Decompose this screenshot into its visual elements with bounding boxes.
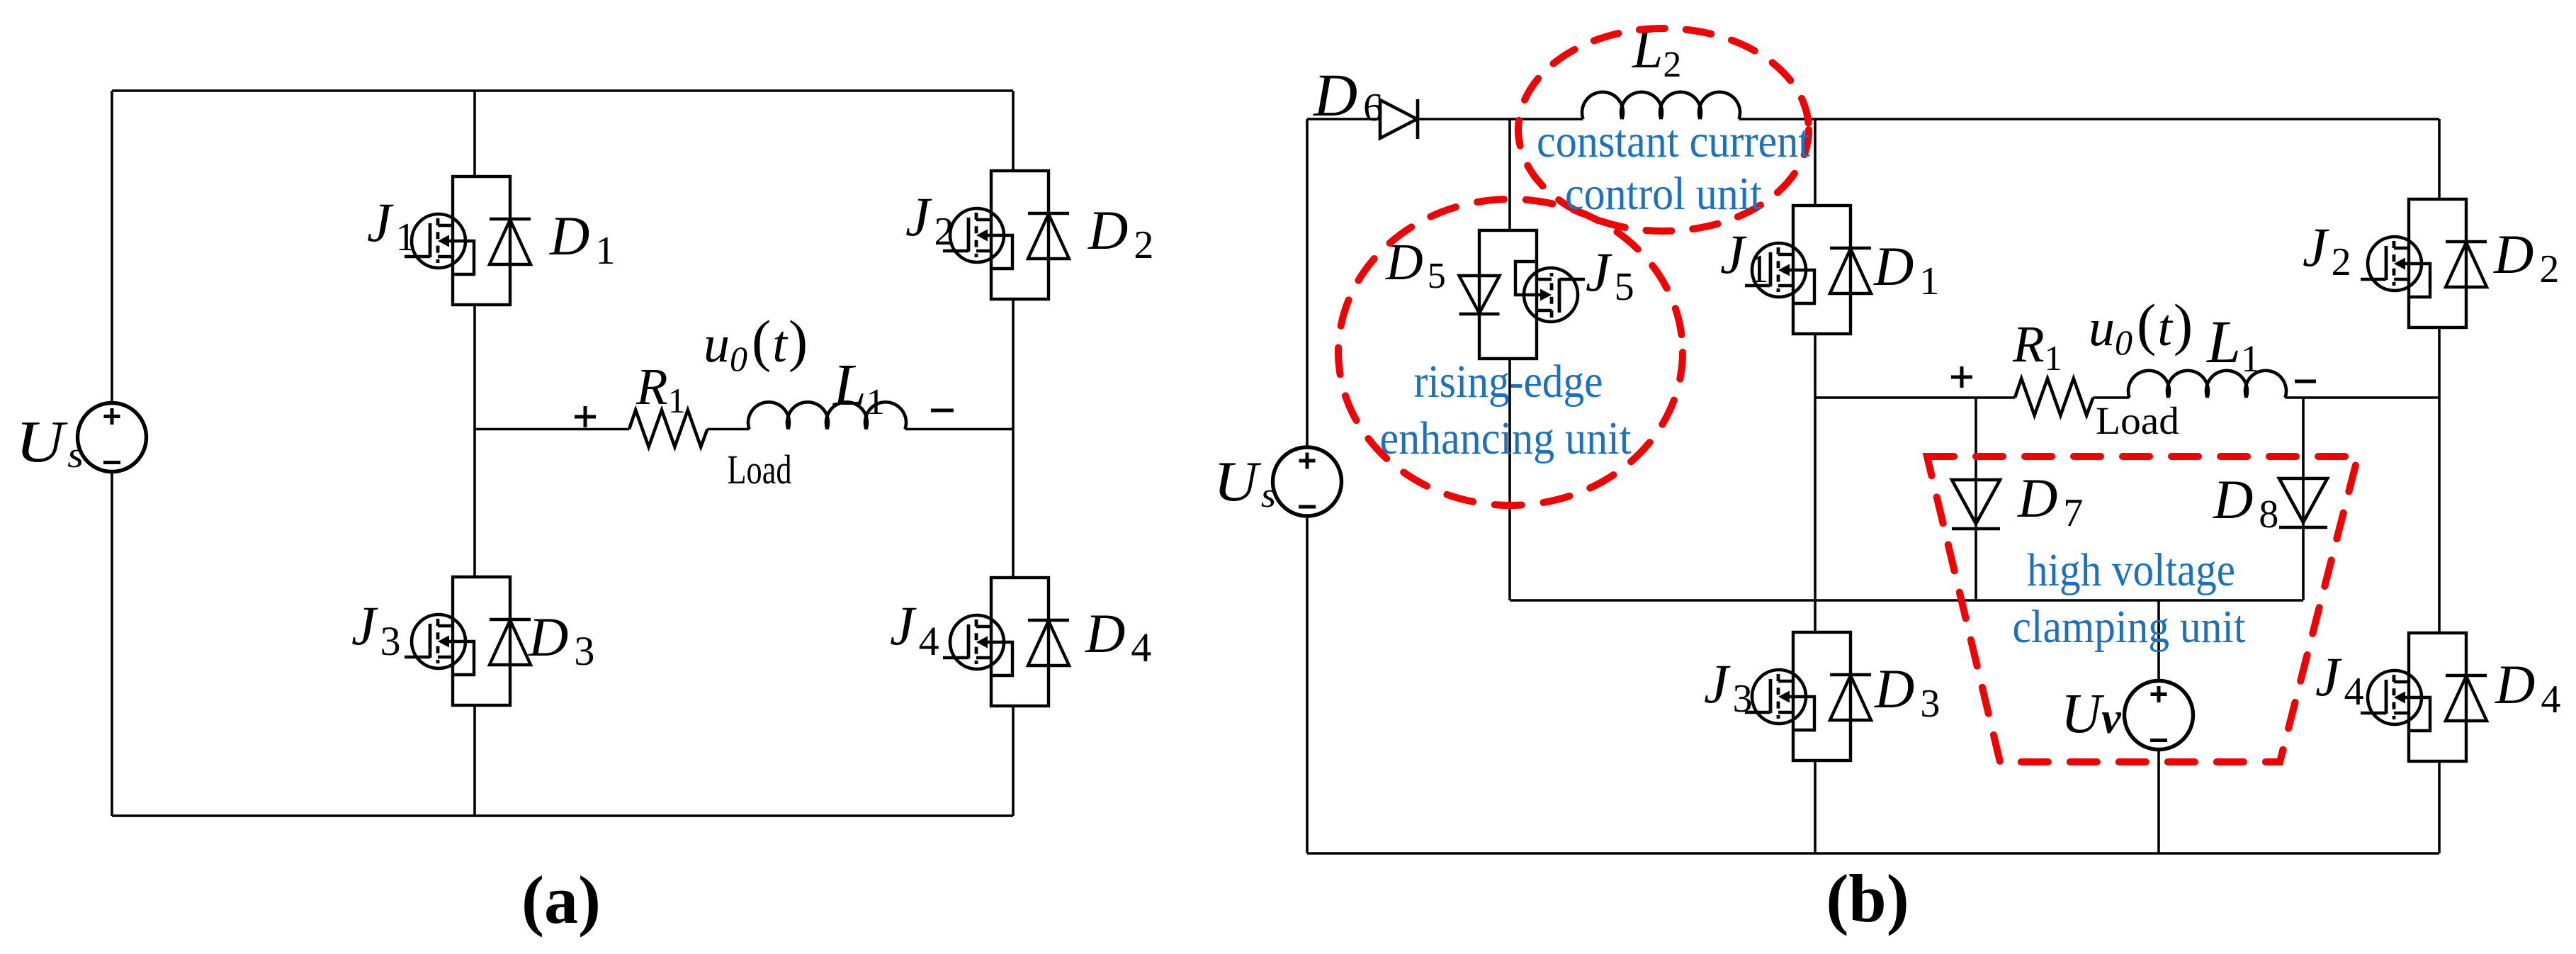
transistor unit J4/D4 (a): parallel box <box>991 578 1049 706</box>
transistor J1 (b) <box>1745 243 1814 303</box>
transistor J3 (b) <box>1745 670 1814 730</box>
wire: left rail upper (b) <box>1306 119 1309 447</box>
wire: D5/J5 branch bottom (b) <box>1508 359 1511 600</box>
transistor unit J1/D1 (a): parallel box <box>453 176 510 305</box>
svg-text:L1: L1 <box>2205 308 2260 380</box>
wire: J1-J3 leg middle (b) <box>1814 334 1817 632</box>
svg-text:Us: Us <box>1214 451 1276 515</box>
svg-text:Load: Load <box>728 447 792 493</box>
svg-text:D3: D3 <box>1874 658 1940 726</box>
wire: load node left (a) <box>475 428 629 431</box>
svg-text:J3: J3 <box>351 595 401 664</box>
annotation ellipse: rising-edge enhancing unit <box>1338 199 1683 505</box>
wire: load node left (b) <box>1815 396 2015 399</box>
svg-text:D7: D7 <box>2017 467 2083 535</box>
wire: left leg bottom (a) <box>473 705 476 816</box>
svg-text:Load: Load <box>2096 399 2179 442</box>
body diode D1 (a) <box>490 219 531 264</box>
svg-text:D1: D1 <box>549 205 615 273</box>
diode D7 <box>1952 480 2000 529</box>
svg-text:J4: J4 <box>2315 646 2364 714</box>
svg-text:Us: Us <box>16 409 84 476</box>
svg-text:D8: D8 <box>2213 468 2278 537</box>
svg-text:constant current: constant current <box>1537 116 1810 167</box>
svg-text:(a): (a) <box>521 862 601 938</box>
svg-text:(b): (b) <box>1826 860 1909 936</box>
minus polarity mark (a) <box>931 409 954 413</box>
wire: top rail left segment (b) <box>1307 118 1380 120</box>
svg-text:clamping unit: clamping unit <box>2013 601 2246 653</box>
wire: J3 leg bottom (b) <box>1814 761 1817 853</box>
wire: middle rail (b) <box>1510 599 2303 602</box>
wire: load node middle (a) <box>707 428 749 431</box>
wire: J4 leg bottom (b) <box>2438 761 2441 853</box>
wire: D7 branch (b) <box>1975 398 1977 600</box>
wire: top rail mid segment (b) <box>1418 118 1583 120</box>
transistor unit J4/D4 (b): parallel box <box>2409 633 2466 761</box>
transistor J4 (a) <box>943 615 1012 675</box>
voltage source Uv <box>2125 681 2193 750</box>
wire: Uv branch upper (b) <box>2157 600 2160 683</box>
svg-text:D4: D4 <box>2495 653 2560 722</box>
svg-text:J5: J5 <box>1586 241 1634 309</box>
wire: left rail lower (a) <box>111 472 113 816</box>
wire: J1 leg top (b) <box>1814 119 1817 206</box>
wire: load node right (a) <box>905 428 1014 431</box>
svg-text:J4: J4 <box>890 595 939 664</box>
transistor unit J3/D3 (b): parallel box <box>1793 632 1851 761</box>
svg-text:J2: J2 <box>2303 216 2351 284</box>
wire: right leg bottom (a) <box>1012 706 1015 816</box>
transistor unit J1/D1 (b): parallel box <box>1793 206 1851 334</box>
svg-text:Uv: Uv <box>2061 683 2122 745</box>
svg-text:J2: J2 <box>905 186 954 254</box>
wire: left leg middle (a) <box>473 305 476 577</box>
voltage source Us (b) <box>1273 447 1342 516</box>
body diode D4 (b) <box>2446 675 2487 721</box>
transistor J4 (b) <box>2361 670 2430 731</box>
svg-text:D6: D6 <box>1313 61 1383 130</box>
body diode D2 (a) <box>1028 213 1069 259</box>
transistor unit J2/D2 (b): parallel box <box>2409 199 2466 327</box>
transistor unit J3/D3 (a): parallel box <box>453 577 510 705</box>
svg-text:rising-edge: rising-edge <box>1414 356 1603 408</box>
transistor J5 <box>1515 262 1585 322</box>
plus polarity mark (b) <box>1951 366 1972 388</box>
svg-text:control unit: control unit <box>1565 168 1762 220</box>
svg-text:R1: R1 <box>635 358 686 420</box>
inductor L1 (a) <box>748 402 906 429</box>
transistor J2 (a) <box>943 208 1012 269</box>
transistor J3 (a) <box>405 615 474 675</box>
wire: left rail upper (a) <box>111 91 113 403</box>
svg-text:u0(t): u0(t) <box>2089 292 2193 362</box>
wire: right leg middle (a) <box>1012 299 1015 578</box>
svg-text:D2: D2 <box>2493 223 2559 291</box>
svg-text:J1: J1 <box>1720 223 1769 291</box>
body diode D1 (b) <box>1830 248 1871 293</box>
annotation ellipse: constant current control unit <box>1518 28 1809 231</box>
wire: top rail right segment (b) <box>1739 118 2440 120</box>
body diode D4 (a) <box>1028 620 1069 666</box>
wire: right leg top (a) <box>1012 91 1015 171</box>
transistor J2 (b) <box>2361 237 2430 297</box>
svg-text:D2: D2 <box>1088 199 1153 267</box>
inductor L2 <box>1582 92 1740 119</box>
inductor L1 (b) <box>2128 371 2286 398</box>
resistor R1 (a) <box>629 410 707 447</box>
switch unit J5/D5: parallel box <box>1479 230 1537 359</box>
diode D5 <box>1459 276 1500 314</box>
wire: load node right (b) <box>2286 396 2440 399</box>
transistor J1 (a) <box>405 214 474 274</box>
transistor unit J2/D2 (a): parallel box <box>991 171 1049 299</box>
svg-text:R1: R1 <box>2012 315 2062 378</box>
resistor R1 (b) <box>2015 378 2093 415</box>
diode D8 <box>2279 478 2327 527</box>
wire: Uv branch lower (b) <box>2157 748 2160 853</box>
annotation trapezoid: high voltage clamping unit <box>1927 456 2358 762</box>
wire: J2-J4 leg middle (b) <box>2438 327 2441 633</box>
plus polarity mark (a) <box>575 406 596 427</box>
body diode D3 (a) <box>490 619 531 665</box>
svg-text:D3: D3 <box>528 606 594 674</box>
voltage source Us (a) <box>78 403 147 472</box>
wire: D5/J5 branch top (b) <box>1508 119 1511 230</box>
wire: left leg top (a) <box>473 91 476 176</box>
svg-text:high voltage: high voltage <box>2027 544 2235 596</box>
wire: left rail lower (b) <box>1306 516 1309 853</box>
minus polarity mark (b) <box>2295 380 2316 383</box>
wire: bottom return (a) <box>112 814 1013 817</box>
diode D6 <box>1380 99 1418 139</box>
svg-text:J3: J3 <box>1704 653 1753 721</box>
svg-text:D4: D4 <box>1085 602 1151 670</box>
wire: D8 branch (b) <box>2302 398 2305 600</box>
svg-text:enhancing unit: enhancing unit <box>1380 413 1632 464</box>
body diode D2 (b) <box>2446 242 2487 287</box>
wire: load node middle (b) <box>2093 396 2129 399</box>
svg-text:L1: L1 <box>832 352 885 422</box>
wire: J2 leg top (b) <box>2438 119 2441 199</box>
wire: bottom return (b) <box>1307 852 2439 855</box>
svg-text:J1: J1 <box>367 191 416 259</box>
svg-text:u0(t): u0(t) <box>704 308 808 378</box>
circuit (a) frame: top supply wire <box>112 89 1013 92</box>
svg-text:D1: D1 <box>1873 235 1939 303</box>
body diode D3 (b) <box>1830 675 1871 720</box>
